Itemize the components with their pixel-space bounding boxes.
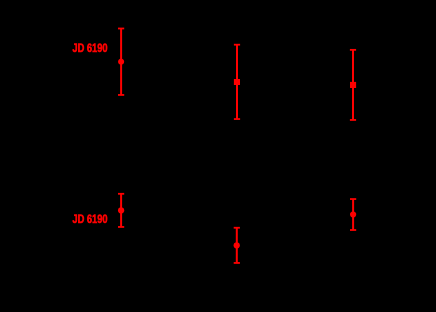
svg-text:JD 6190: JD 6190 <box>72 212 107 226</box>
svg-text:JD 6190: JD 6190 <box>72 41 107 55</box>
